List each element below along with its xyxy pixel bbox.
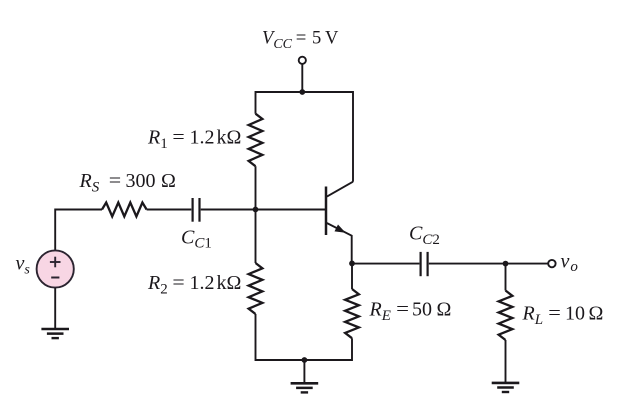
resistor R2 <box>249 263 263 314</box>
svg-text:CC1: CC1 <box>181 227 212 252</box>
output terminal vo <box>548 260 555 267</box>
svg-text:RL=10Ω: RL=10Ω <box>522 303 604 329</box>
source vs <box>37 250 74 287</box>
capacitor CC2 <box>421 252 428 276</box>
junction bottom rail / ground <box>302 357 308 363</box>
wire source to RS <box>55 210 102 251</box>
transistor Q1 <box>326 182 353 264</box>
wire R1 bottom to base node <box>255 166 257 209</box>
wire CC2 to output <box>429 263 548 265</box>
wire emitter node to RE <box>351 263 353 289</box>
svg-text:R2=1.2kΩ: R2=1.2kΩ <box>147 272 241 298</box>
wire RS to CC1 <box>147 209 192 211</box>
ground vs <box>41 328 69 331</box>
junction output node <box>503 261 509 267</box>
ground RL <box>492 382 520 385</box>
resistor RL <box>499 291 513 341</box>
svg-text:CC2: CC2 <box>409 223 440 248</box>
wire ground stem <box>303 360 305 383</box>
wire vs to ground <box>54 288 56 329</box>
wire CC1 to base node <box>201 209 256 211</box>
svg-text:VCC=5V: VCC=5V <box>262 29 339 53</box>
ground center <box>291 382 319 385</box>
wire RL to ground <box>505 340 507 383</box>
svg-text:vs: vs <box>16 253 31 278</box>
svg-text:RS=300Ω: RS=300Ω <box>79 170 176 196</box>
wire output node to RL <box>505 264 507 291</box>
junction top rail / VCC <box>299 89 305 95</box>
power terminal VCC <box>299 57 306 92</box>
resistor RE <box>345 289 359 338</box>
svg-text:vo: vo <box>561 250 579 275</box>
svg-text:R1=1.2kΩ: R1=1.2kΩ <box>147 127 241 153</box>
wire base node to transistor base <box>256 209 326 211</box>
wire base node down to R2 <box>255 210 257 264</box>
capacitor CC1 <box>193 198 200 222</box>
junction emitter node <box>349 261 355 267</box>
wire top rail <box>256 92 354 182</box>
wire emitter node to CC2 <box>352 263 419 265</box>
junction base node <box>253 207 259 213</box>
svg-text:RE=50Ω: RE=50Ω <box>369 299 452 325</box>
resistor R1 <box>249 114 263 167</box>
resistor RS <box>102 203 147 217</box>
wire R2 bottom + bottom rail <box>256 314 353 360</box>
